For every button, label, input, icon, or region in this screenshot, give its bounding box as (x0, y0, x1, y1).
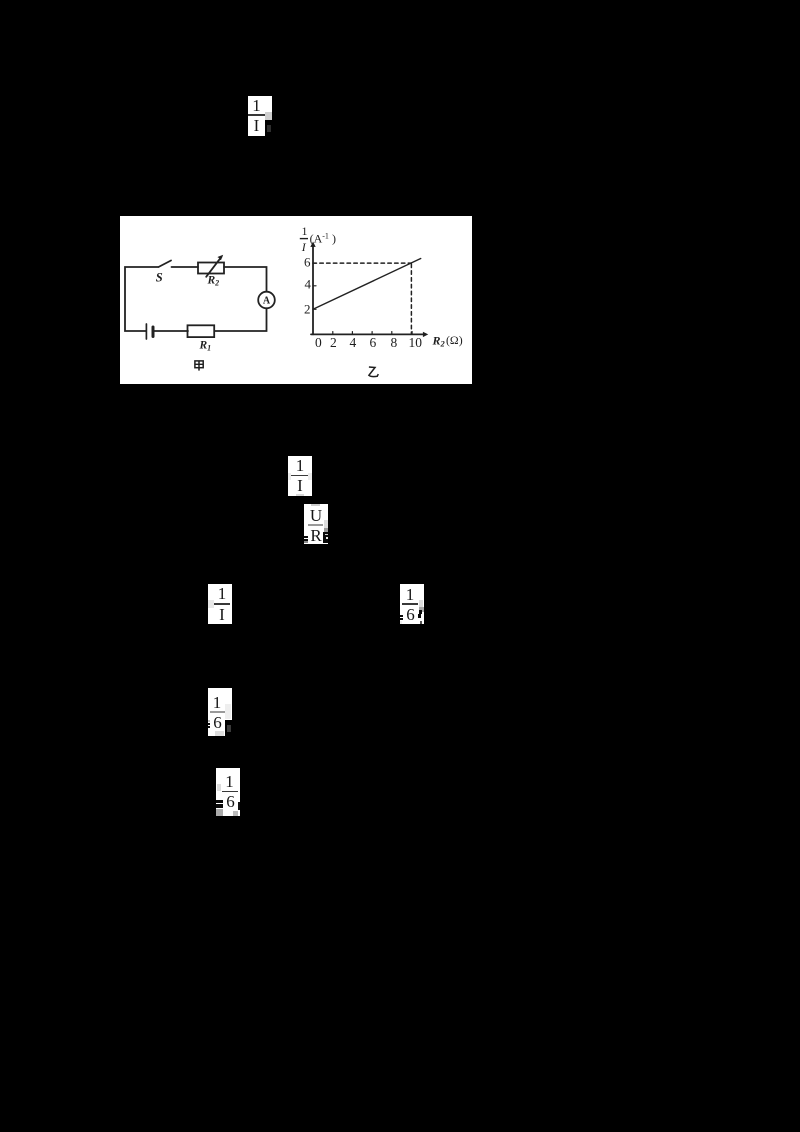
svg-text:A: A (263, 296, 271, 307)
svg-text:(A-1 ): (A-1 ) (310, 231, 336, 245)
svg-text:10: 10 (409, 335, 423, 350)
svg-text:2: 2 (304, 302, 311, 317)
svg-text:6: 6 (370, 335, 377, 350)
svg-text:(Ω): (Ω) (446, 333, 463, 347)
svg-text:R2: R2 (432, 334, 446, 349)
svg-text:1: 1 (302, 224, 308, 238)
svg-text:R1: R1 (199, 340, 212, 353)
svg-text:R2: R2 (207, 275, 220, 288)
svg-text:S: S (156, 271, 163, 285)
svg-text:I: I (301, 240, 307, 254)
svg-text:0: 0 (315, 335, 322, 350)
svg-text:2: 2 (330, 335, 337, 350)
svg-text:4: 4 (350, 335, 357, 350)
svg-text:4: 4 (305, 277, 312, 292)
svg-text:6: 6 (304, 254, 311, 269)
svg-text:8: 8 (391, 335, 398, 350)
